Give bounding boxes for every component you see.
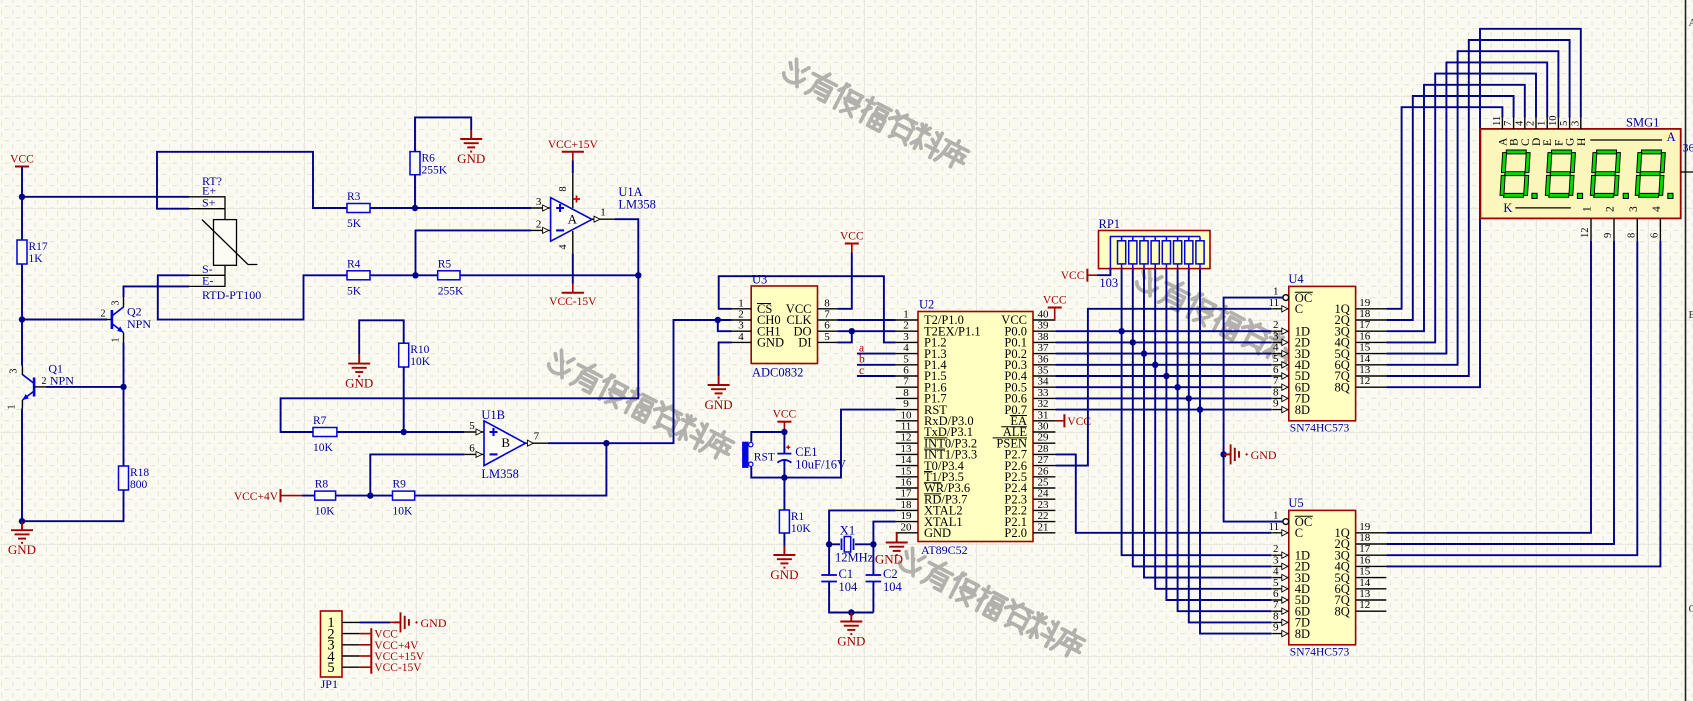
svg-text:H: H — [1576, 138, 1588, 146]
wire net S+ / R3 row — [157, 152, 531, 209]
svg-text:ADC0832: ADC0832 — [752, 366, 803, 380]
svg-text:3: 3 — [903, 331, 909, 343]
digit 3 segments — [1590, 150, 1620, 197]
wire net c wire — [857, 375, 896, 377]
svg-text:3: 3 — [1570, 121, 1581, 126]
svg-text:104: 104 — [883, 580, 903, 594]
wire net U4 4Q to segment — [1386, 74, 1536, 343]
wire R8/R9 row — [302, 443, 606, 495]
svg-text:103: 103 — [1099, 276, 1118, 290]
power VCC+15V — [548, 139, 599, 173]
svg-text:E: E — [1542, 139, 1554, 146]
svg-text:17: 17 — [1359, 543, 1371, 555]
svg-text:14: 14 — [1359, 353, 1371, 365]
svg-text:R10: R10 — [410, 344, 429, 356]
svg-text:SN74HC573: SN74HC573 — [1290, 646, 1350, 658]
svg-text:8: 8 — [1273, 386, 1279, 398]
wire U2 GND stub — [895, 532, 898, 535]
svg-text:1: 1 — [600, 207, 606, 219]
capacitor C2 — [866, 567, 903, 594]
svg-text:10K: 10K — [313, 442, 334, 454]
wire net U4 8Q to segment — [1386, 29, 1581, 387]
svg-text:37: 37 — [1038, 342, 1050, 354]
capacitor CE1 — [777, 445, 846, 472]
IC U3 ADC0832 — [732, 273, 838, 380]
svg-text:R4: R4 — [347, 258, 361, 270]
display SMG1 (4-digit 7-segment) — [1480, 116, 1680, 241]
wire R10 top to GND — [359, 320, 404, 354]
connector JP1 — [321, 611, 360, 691]
svg-text:GND: GND — [924, 526, 951, 540]
svg-text:B: B — [1509, 138, 1521, 146]
svg-text:VCC-15V: VCC-15V — [549, 296, 597, 308]
svg-text:2: 2 — [903, 320, 909, 332]
svg-text:255K: 255K — [438, 285, 464, 297]
svg-text:15: 15 — [901, 465, 913, 477]
svg-text:a: a — [859, 343, 864, 355]
svg-text:33: 33 — [1038, 387, 1050, 399]
svg-text:A: A — [568, 211, 578, 226]
svg-text:10: 10 — [1548, 116, 1559, 127]
node P0.7 bus junction — [1197, 406, 1203, 412]
svg-text:C2: C2 — [883, 567, 898, 581]
svg-text:2: 2 — [42, 376, 47, 387]
svg-text:5K: 5K — [347, 218, 362, 230]
svg-text:P2.0: P2.0 — [1004, 526, 1027, 540]
svg-text:9: 9 — [1603, 233, 1614, 238]
svg-text:2: 2 — [101, 309, 106, 320]
svg-text:7: 7 — [903, 376, 909, 388]
svg-text:GND: GND — [345, 376, 373, 391]
ground GND (bottom-left) — [8, 521, 36, 557]
svg-text:3: 3 — [1273, 554, 1279, 566]
net label c — [859, 365, 864, 377]
capacitor C1 — [821, 567, 858, 594]
node R3/R6 junction — [412, 205, 418, 211]
svg-text:19: 19 — [901, 510, 913, 522]
power VCC (EA pin31) — [1055, 414, 1091, 428]
svg-text:K: K — [1503, 201, 1512, 215]
power VCC (RST) — [773, 409, 797, 432]
node CH0/CH1 junction — [715, 317, 721, 323]
watermark text — [1133, 264, 1324, 381]
svg-text:R8: R8 — [315, 479, 329, 491]
svg-text:9: 9 — [1273, 398, 1279, 410]
node R7/R10 junction — [401, 429, 407, 435]
svg-text:15: 15 — [1359, 566, 1371, 578]
net label b — [859, 354, 865, 366]
svg-text:11: 11 — [1269, 297, 1280, 309]
power VCC (top-left) — [10, 154, 34, 167]
node P0.0 bus junction — [1118, 328, 1124, 334]
svg-text:31: 31 — [1038, 409, 1049, 421]
wire net U4 5Q to segment — [1386, 62, 1547, 353]
svg-text:VCC: VCC — [773, 409, 797, 421]
svg-text:10K: 10K — [315, 506, 336, 518]
svg-text:8: 8 — [558, 186, 569, 191]
svg-text:5: 5 — [469, 420, 475, 432]
svg-text:10uF/16V: 10uF/16V — [795, 458, 846, 472]
wire net U4 1Q to segment — [1386, 107, 1502, 309]
svg-text:U4: U4 — [1288, 272, 1304, 286]
svg-text:32: 32 — [1038, 398, 1049, 410]
wire net P0.0 — [1055, 330, 1271, 332]
svg-text:VCC+4V: VCC+4V — [374, 640, 419, 652]
svg-text:12MHz: 12MHz — [835, 551, 874, 565]
watermark text — [545, 346, 736, 463]
svg-text:5: 5 — [903, 353, 909, 365]
wire ADC GND wire — [719, 342, 732, 376]
svg-text:LM358: LM358 — [618, 198, 656, 212]
svg-text:GND: GND — [457, 151, 485, 166]
svg-text:SMG1: SMG1 — [1626, 116, 1659, 130]
wire net P2.7 to U5 C — [1055, 454, 1271, 532]
svg-text:LM358: LM358 — [481, 467, 519, 481]
wire U1B output to ADC CH0/CH1 — [548, 320, 732, 443]
svg-text:12: 12 — [1359, 599, 1370, 611]
svg-text:R9: R9 — [393, 479, 407, 491]
svg-text:364: 364 — [1683, 141, 1693, 155]
svg-text:1: 1 — [1537, 121, 1548, 126]
svg-text:6: 6 — [1649, 233, 1660, 238]
resistor R9 — [393, 479, 415, 518]
svg-text:4: 4 — [1273, 566, 1279, 578]
wire ADC VCC wire — [837, 253, 852, 309]
svg-text:F: F — [1553, 140, 1565, 146]
svg-text:R1: R1 — [791, 511, 805, 523]
svg-text:5K: 5K — [347, 285, 362, 297]
ground GND (above R6) — [457, 130, 485, 166]
svg-text:13: 13 — [901, 443, 913, 455]
svg-text:7: 7 — [1273, 375, 1279, 387]
wire net U5 1Q to digit 1 cathode — [1386, 241, 1591, 533]
svg-text:R18: R18 — [130, 467, 149, 479]
svg-text:B: B — [1689, 309, 1693, 321]
power VCC (JP1 pin2) — [359, 628, 398, 640]
svg-text:R7: R7 — [313, 415, 327, 427]
svg-text:2: 2 — [1273, 319, 1279, 331]
wire net P0.7 — [1055, 409, 1271, 411]
svg-text:SN74HC573: SN74HC573 — [1290, 422, 1350, 434]
svg-text:1: 1 — [7, 405, 18, 410]
svg-text:GND: GND — [757, 336, 784, 350]
wire net CLK to P1.0 — [837, 319, 896, 321]
svg-text:4: 4 — [1273, 342, 1279, 354]
node P0.6 bus junction — [1186, 395, 1192, 401]
resistor R6 — [410, 152, 448, 177]
svg-text:b: b — [859, 354, 865, 366]
svg-text:12: 12 — [901, 432, 912, 444]
node P0.2 bus junction — [1141, 350, 1147, 356]
svg-text:10: 10 — [901, 409, 913, 421]
svg-text:255K: 255K — [422, 165, 448, 177]
svg-text:DI: DI — [798, 336, 811, 350]
svg-text:1: 1 — [111, 338, 122, 343]
ground GND (R10) — [345, 355, 373, 391]
svg-text:RP1: RP1 — [1099, 217, 1121, 231]
wire U1A pin2 branch — [416, 230, 532, 275]
node X1 left junction — [826, 541, 832, 547]
ground GND (OC, side symbol) — [1224, 444, 1277, 464]
ground GND (ADC) — [705, 376, 733, 412]
wire U1B pin6 branch — [370, 454, 464, 495]
svg-text:B: B — [501, 435, 510, 450]
wire net U5 3Q to digit 3 cathode — [1386, 241, 1637, 555]
ground GND (C1C2) — [837, 613, 865, 649]
svg-text:VCC: VCC — [840, 231, 864, 243]
svg-text:11: 11 — [901, 421, 912, 433]
svg-text:5: 5 — [1273, 353, 1279, 365]
wire net P2.6 to U4 C — [1055, 309, 1271, 466]
node Q1 base/Q2 emitter/R18 junction — [120, 384, 126, 390]
svg-text:VCC-15V: VCC-15V — [374, 662, 422, 674]
svg-text:10K: 10K — [393, 506, 414, 518]
svg-text:10K: 10K — [410, 356, 431, 368]
node X1 right junction — [870, 541, 876, 547]
wire net U5 2Q to digit 2 cathode — [1386, 241, 1614, 544]
svg-text:9: 9 — [1273, 622, 1279, 634]
MCU U2 AT89C52 — [896, 298, 1056, 558]
wire net P0.1 — [1055, 341, 1271, 343]
svg-text:U2: U2 — [919, 298, 934, 312]
power VCC+4V (JP1 pin3) — [359, 640, 419, 652]
svg-text:4: 4 — [558, 244, 569, 250]
wire net E+ — [22, 196, 189, 198]
IC U4 SN74HC573 — [1269, 272, 1387, 435]
wire bus column 6 (RP1 to U5 6D) — [1178, 269, 1272, 612]
node R8/R9/U1B- junction — [367, 492, 373, 498]
crystal X1 — [835, 524, 874, 565]
svg-text:1: 1 — [1273, 510, 1279, 522]
svg-text:1: 1 — [903, 309, 909, 321]
svg-text:R3: R3 — [347, 191, 361, 203]
svg-text:24: 24 — [1038, 488, 1050, 500]
svg-text:VCC: VCC — [1043, 295, 1067, 307]
svg-text:19: 19 — [1359, 521, 1371, 533]
svg-text:1: 1 — [1273, 286, 1279, 298]
svg-text:4: 4 — [1651, 206, 1663, 212]
wire push-button wires — [751, 432, 784, 478]
ground GND (U2 pin20) — [875, 534, 908, 567]
power VCC (ADC) — [840, 231, 864, 253]
svg-text:4: 4 — [1514, 120, 1525, 126]
resistor pack RP1 103 — [1099, 217, 1211, 290]
svg-text:16: 16 — [1359, 330, 1371, 342]
svg-text:U1B: U1B — [481, 408, 505, 422]
node R17/Q2 base junction — [19, 316, 25, 322]
wire net P0.6 — [1055, 397, 1271, 399]
svg-text:23: 23 — [1038, 499, 1050, 511]
svg-text:10K: 10K — [791, 523, 812, 535]
resistor R7 — [313, 415, 337, 454]
node U1B output junction — [603, 440, 609, 446]
node P0.1 bus junction — [1130, 339, 1136, 345]
resistor R10 — [399, 343, 431, 368]
svg-text:1K: 1K — [29, 253, 44, 265]
wire CE1 wires — [783, 432, 785, 478]
wire C1/C2 wires — [829, 544, 873, 612]
svg-text:NPN: NPN — [50, 374, 74, 388]
svg-text:13: 13 — [1359, 364, 1371, 376]
svg-text:34: 34 — [1038, 376, 1050, 388]
wire net b wire — [857, 364, 896, 366]
wire R1 top wire — [783, 478, 785, 510]
svg-text:5: 5 — [1559, 121, 1570, 126]
svg-text:A: A — [1497, 137, 1509, 146]
svg-text:35: 35 — [1038, 365, 1050, 377]
wire VCC/Q1 column — [21, 167, 23, 522]
svg-text:2: 2 — [1526, 121, 1537, 126]
op-amp U1B — [464, 408, 547, 481]
svg-text:4: 4 — [903, 342, 909, 354]
node OC GND junction — [1220, 451, 1226, 457]
svg-text:6: 6 — [1273, 364, 1279, 376]
node DO/DI junction — [849, 328, 855, 334]
svg-text:22: 22 — [1038, 510, 1049, 522]
svg-text:5: 5 — [327, 660, 334, 676]
svg-text:8: 8 — [824, 297, 830, 309]
svg-text:A: A — [1689, 17, 1693, 29]
svg-text:C: C — [1295, 526, 1303, 540]
power VCC+4V — [234, 489, 302, 503]
resistor R8 — [315, 479, 336, 518]
svg-text:GND: GND — [1251, 448, 1277, 462]
node P0.3 bus junction — [1152, 362, 1158, 368]
wire bus column 8 (RP1 to U5 8D) — [1200, 269, 1272, 634]
sheet frame border — [1681, 0, 1693, 701]
svg-text:14: 14 — [901, 454, 913, 466]
wire net P0.3 — [1055, 364, 1271, 366]
transistor Q1 — [7, 361, 75, 409]
svg-text:C1: C1 — [839, 567, 854, 581]
node P0.4 bus junction — [1163, 373, 1169, 379]
svg-text:VCC: VCC — [374, 629, 398, 641]
svg-text:AT89C52: AT89C52 — [921, 543, 968, 557]
svg-text:1: 1 — [738, 297, 744, 309]
IC U5 SN74HC573 — [1269, 496, 1387, 659]
svg-text:8Q: 8Q — [1335, 380, 1350, 394]
svg-text:11: 11 — [1269, 521, 1280, 533]
wire U1A output / feedback to R7 — [281, 219, 639, 432]
wire net OC (U4/U5) to GND — [1224, 298, 1283, 522]
svg-text:5: 5 — [1273, 577, 1279, 589]
svg-text:39: 39 — [1038, 320, 1050, 332]
svg-text:25: 25 — [1038, 477, 1050, 489]
svg-text:14: 14 — [1359, 577, 1371, 589]
svg-text:19: 19 — [1359, 297, 1371, 309]
svg-text:17: 17 — [901, 488, 913, 500]
svg-text:16: 16 — [901, 477, 913, 489]
wire RP1 common pin wire — [1097, 269, 1110, 276]
node RST top junction — [781, 429, 787, 435]
svg-text:3: 3 — [9, 369, 20, 374]
resistor R4 — [347, 258, 370, 297]
svg-text:JP1: JP1 — [321, 677, 338, 691]
svg-text:8: 8 — [1626, 233, 1637, 238]
svg-text:12: 12 — [1580, 228, 1591, 239]
wire net a wire — [857, 353, 896, 355]
svg-text:7: 7 — [824, 309, 830, 321]
wire bus column 2 (RP1 to U5 2D) — [1133, 269, 1272, 567]
node C1/C2 GND junction — [848, 609, 854, 615]
svg-text:5: 5 — [824, 331, 830, 343]
power VCC+15V (JP1 pin4) — [359, 651, 425, 663]
wire R10 bottom — [403, 367, 405, 432]
node GND junction — [19, 518, 25, 524]
svg-text:3: 3 — [738, 320, 744, 332]
svg-text:VCC+15V: VCC+15V — [548, 139, 599, 151]
svg-text:1: 1 — [1582, 206, 1594, 212]
svg-text:VCC+4V: VCC+4V — [234, 491, 279, 503]
wire R1 bottom wire — [783, 533, 785, 546]
digit 1 segments — [1500, 150, 1530, 197]
svg-text:D: D — [1531, 138, 1543, 146]
wire JP1 pin1 to GND — [359, 621, 390, 623]
push-button RST — [743, 442, 775, 467]
resistor R1 — [779, 510, 811, 535]
svg-text:2: 2 — [1273, 543, 1279, 555]
watermark text — [896, 544, 1087, 661]
svg-text:E-: E- — [202, 273, 213, 287]
svg-text:C: C — [1520, 138, 1532, 146]
power VCC (RP1) — [1061, 269, 1097, 283]
svg-text:16: 16 — [1359, 554, 1371, 566]
power VCC-15V (JP1 pin5) — [359, 662, 422, 674]
svg-text:6: 6 — [469, 442, 475, 454]
svg-text:8Q: 8Q — [1335, 604, 1350, 618]
wire net U4 6Q to segment — [1386, 51, 1558, 365]
svg-text:GND: GND — [837, 634, 865, 649]
svg-text:9: 9 — [903, 398, 909, 410]
wire net CS to P1.2 — [719, 276, 896, 342]
svg-text:RST: RST — [754, 452, 775, 464]
svg-text:6: 6 — [903, 365, 909, 377]
svg-text:7: 7 — [1273, 599, 1279, 611]
node R5/feedback junction — [635, 272, 641, 278]
svg-text:2: 2 — [1605, 206, 1617, 212]
ground GND (R1) — [770, 546, 798, 582]
svg-text:40: 40 — [1038, 309, 1050, 321]
svg-text:4: 4 — [738, 331, 744, 343]
wire net U4 2Q to segment — [1386, 96, 1513, 320]
svg-text:8: 8 — [1273, 610, 1279, 622]
svg-text:2: 2 — [738, 309, 744, 321]
svg-text:27: 27 — [1038, 454, 1050, 466]
node P0.5 bus junction — [1174, 384, 1180, 390]
svg-text:13: 13 — [1359, 588, 1371, 600]
wire R6 branches — [415, 117, 471, 208]
wire net DO/DI to P1.1 — [837, 331, 896, 342]
svg-text:GND: GND — [421, 616, 447, 630]
svg-text:7: 7 — [534, 431, 540, 443]
svg-text:R6: R6 — [422, 153, 436, 165]
wire net U5 4Q to digit 4 cathode — [1386, 241, 1660, 567]
watermark text — [780, 55, 971, 172]
wire net U4 7Q to segment — [1386, 40, 1569, 376]
svg-text:6: 6 — [1273, 588, 1279, 600]
svg-text:S+: S+ — [202, 195, 216, 209]
svg-text:G: G — [1565, 138, 1577, 146]
wire net S- route — [158, 275, 347, 319]
svg-text:RTD-PT100: RTD-PT100 — [202, 288, 261, 302]
wire net U4 3Q to segment — [1386, 85, 1525, 331]
svg-text:20: 20 — [901, 521, 913, 533]
svg-text:8D: 8D — [1295, 627, 1310, 641]
svg-text:VCC: VCC — [10, 154, 34, 166]
wire bus column 1 (RP1 to U5 1D) — [1122, 269, 1272, 556]
wire Q1 base wire — [46, 386, 124, 388]
svg-text:R5: R5 — [438, 258, 452, 270]
